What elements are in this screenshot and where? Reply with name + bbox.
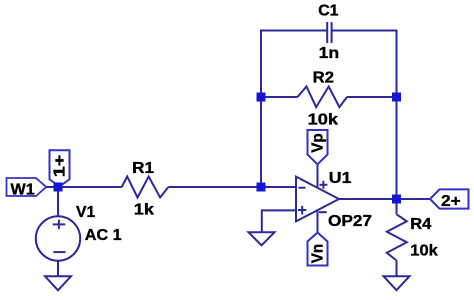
wire: R4 top lead xyxy=(396,199,398,214)
wire: non-inverting input to ground xyxy=(262,210,296,232)
svg-text:1n: 1n xyxy=(319,45,340,62)
node junction output xyxy=(392,195,401,204)
flag W1 input port xyxy=(7,178,47,196)
op-amp U1 triangle xyxy=(296,177,339,222)
svg-text:1+: 1+ xyxy=(52,155,69,178)
svg-text:1k: 1k xyxy=(134,201,154,218)
wire: R4 bottom lead xyxy=(396,261,398,277)
svg-text:10k: 10k xyxy=(308,111,339,128)
ground (R4) xyxy=(384,276,410,290)
wire: Vn supply pin xyxy=(317,210,319,232)
resistor R4 xyxy=(387,214,407,260)
svg-text:R1: R1 xyxy=(132,160,154,177)
ground (non-inverting input) xyxy=(249,232,275,245)
V1 minus marker xyxy=(53,251,65,253)
svg-text:Vp: Vp xyxy=(310,133,327,153)
wire: top feedback wire left segment (C1 left lead) xyxy=(261,31,326,188)
node junction R2 right xyxy=(392,93,401,102)
svg-text:U1: U1 xyxy=(329,170,352,187)
ground (V1) xyxy=(45,276,71,290)
svg-text:OP27: OP27 xyxy=(328,213,372,230)
svg-text:R4: R4 xyxy=(410,216,431,233)
wire: main input wire (W1 node to R1) xyxy=(44,186,122,188)
svg-text:C1: C1 xyxy=(318,2,338,19)
wire: Vp supply pin xyxy=(317,164,319,188)
resistor R2 xyxy=(298,87,348,108)
node junction inverting input xyxy=(257,183,266,192)
svg-text:Vn: Vn xyxy=(310,244,327,264)
wire: W1 node down to V1 xyxy=(57,187,59,216)
wire: R2 right lead xyxy=(347,96,397,98)
op-amp negative supply marker xyxy=(319,211,327,213)
resistor R1 xyxy=(122,177,169,198)
wire: V1 to ground xyxy=(57,261,59,277)
wire: top feedback wire right segment (C1 right lead) xyxy=(332,31,396,200)
flag Vn xyxy=(308,233,328,266)
svg-text:R2: R2 xyxy=(313,70,334,87)
node junction W1 xyxy=(54,183,63,192)
voltage source V1 circle xyxy=(36,216,80,260)
op-amp inverting input marker xyxy=(299,187,306,189)
flag 2+ output port xyxy=(430,189,469,208)
capacitor C1 plates xyxy=(327,22,331,43)
wire: op-amp output to 2+ flag xyxy=(339,198,430,200)
wire: R1 to op-amp inverting input xyxy=(168,186,296,188)
V1 plus marker xyxy=(53,220,66,229)
svg-text:W1: W1 xyxy=(11,182,35,199)
flag Vp xyxy=(308,130,328,164)
svg-text:AC 1: AC 1 xyxy=(85,227,122,244)
node junction R2 left xyxy=(257,93,266,102)
wire: R2 left lead xyxy=(261,96,298,98)
op-amp non-inverting input marker xyxy=(298,206,306,215)
flag 1+ node xyxy=(50,150,70,186)
svg-text:10k: 10k xyxy=(410,242,438,259)
svg-text:2+: 2+ xyxy=(441,193,461,210)
op-amp positive supply marker xyxy=(319,181,327,189)
svg-text:V1: V1 xyxy=(76,204,95,221)
